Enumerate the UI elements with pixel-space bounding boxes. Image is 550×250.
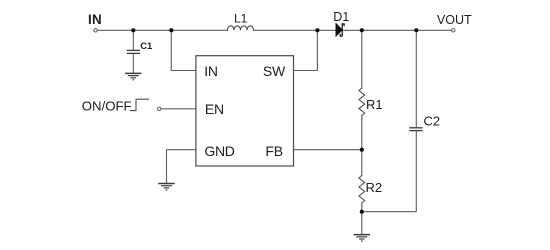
node dot: diode cathode / R1 xyxy=(360,28,364,32)
svg-text:IN: IN xyxy=(204,63,218,79)
svg-text:FB: FB xyxy=(265,143,283,159)
inductor L1 xyxy=(228,26,254,31)
diode D1 xyxy=(336,23,344,36)
wire EN terminal to EN pin xyxy=(161,108,196,110)
terminal VOUT xyxy=(452,29,455,32)
svg-text:ON/OFF: ON/OFF xyxy=(82,99,132,114)
wire FB node to R2 xyxy=(361,150,363,176)
wire top node to R1 xyxy=(361,30,363,88)
rising-edge symbol (ON/OFF) xyxy=(130,99,149,110)
node dot: bottom node xyxy=(360,210,364,214)
resistor R2 xyxy=(359,175,365,206)
wire junction to IN pin xyxy=(171,30,196,70)
svg-text:L1: L1 xyxy=(234,12,248,26)
wire bottom node to ground xyxy=(361,212,363,235)
terminal IN xyxy=(94,29,97,32)
wire SW pin to top node xyxy=(294,30,318,70)
node dot: FB divider xyxy=(360,148,364,152)
node dot: SW / diode anode xyxy=(315,28,319,32)
ground (IC GND pin) xyxy=(158,184,174,190)
node dot: C1 junction xyxy=(131,28,135,32)
node dot: C2 top xyxy=(414,28,418,32)
terminal EN xyxy=(158,107,161,110)
wire IN terminal to L1 xyxy=(97,29,227,31)
wire top node to C2 xyxy=(415,30,417,127)
resistor R1 xyxy=(359,88,365,119)
svg-text:R1: R1 xyxy=(366,97,383,112)
node dot: IN-pin junction xyxy=(169,28,173,32)
ground (C1) xyxy=(125,73,141,79)
wire C1 to ground xyxy=(132,54,134,73)
svg-text:SW: SW xyxy=(263,63,286,79)
ground (R2 / C2) xyxy=(354,235,370,241)
svg-text:EN: EN xyxy=(205,101,224,117)
capacitor C2 xyxy=(409,128,422,131)
svg-text:C1: C1 xyxy=(140,41,153,52)
wire R1 to FB node xyxy=(361,119,363,150)
wire GND pin to ground xyxy=(167,150,196,183)
svg-text:C2: C2 xyxy=(424,113,441,128)
IC box U1 xyxy=(196,56,294,166)
capacitor C1 xyxy=(127,50,140,53)
svg-text:D1: D1 xyxy=(333,10,349,24)
svg-text:R2: R2 xyxy=(366,180,383,195)
wire R2 to bottom node xyxy=(361,206,363,212)
svg-text:GND: GND xyxy=(204,143,234,159)
wire L1 to VOUT terminal xyxy=(254,29,452,31)
svg-text:VOUT: VOUT xyxy=(437,13,472,27)
svg-text:IN: IN xyxy=(88,12,102,27)
wire FB pin to divider node xyxy=(294,149,362,151)
wire bottom node to C2 bottom xyxy=(362,131,417,211)
wire C1 branch xyxy=(132,30,134,50)
